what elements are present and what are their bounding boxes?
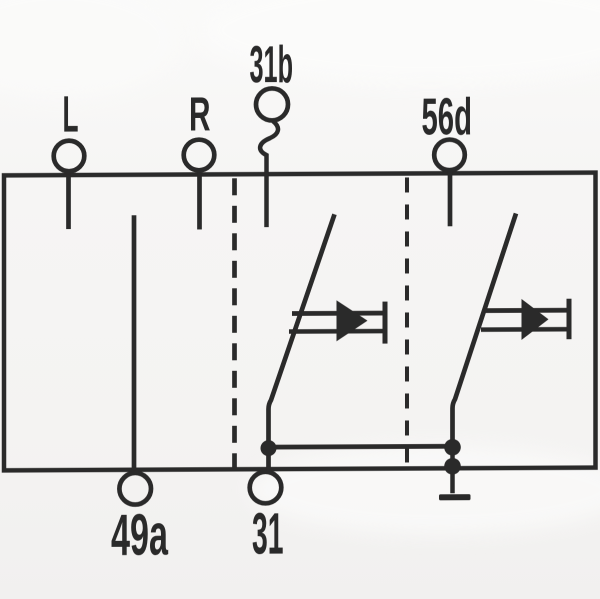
svg-text:49a: 49a bbox=[111, 503, 168, 568]
right contact T-bar bbox=[567, 299, 572, 340]
terminal 56d circle bbox=[434, 140, 465, 171]
svg-text:L: L bbox=[63, 86, 79, 143]
junction node on box edge bbox=[444, 458, 461, 475]
svg-text:31b: 31b bbox=[250, 36, 294, 94]
ground bar bbox=[439, 494, 471, 500]
left contact arm bottom line bbox=[289, 329, 385, 334]
junction node (wire to ground) bbox=[444, 439, 461, 456]
terminal L stub wire bbox=[66, 174, 71, 229]
terminal R stub wire bbox=[197, 173, 202, 229]
terminal 31b squiggle wire bbox=[260, 121, 278, 227]
svg-text:56d: 56d bbox=[422, 88, 473, 146]
wire from node 31 to node 56d ground bbox=[269, 444, 453, 450]
watermark swoosh bbox=[250, 445, 600, 535]
terminal 56d stub wire bbox=[448, 171, 453, 226]
left contact arrowhead bbox=[337, 300, 368, 341]
left contact T-bar bbox=[383, 302, 388, 344]
right contact arm top line bbox=[484, 308, 569, 313]
terminal 31b circle bbox=[256, 88, 288, 120]
dashed divider right bbox=[405, 177, 409, 467]
switch body box bbox=[4, 173, 596, 471]
left contact arm top line bbox=[292, 311, 385, 316]
dashed divider left bbox=[232, 178, 237, 468]
right contact arm bottom line bbox=[481, 327, 569, 332]
svg-text:31: 31 bbox=[252, 502, 284, 567]
right contact arrowhead bbox=[522, 299, 549, 340]
terminal 49a circle bbox=[119, 473, 151, 505]
terminal R circle bbox=[184, 140, 215, 171]
right switch lever (diagonal) bbox=[453, 213, 517, 447]
terminal L circle bbox=[54, 141, 85, 172]
terminal 49a wire bbox=[132, 215, 137, 469]
ground stem wire bbox=[450, 447, 455, 493]
svg-text:R: R bbox=[189, 88, 211, 141]
junction node 31 bbox=[261, 440, 277, 456]
terminal 31 circle bbox=[250, 472, 282, 504]
left switch lever (diagonal) bbox=[269, 214, 335, 470]
